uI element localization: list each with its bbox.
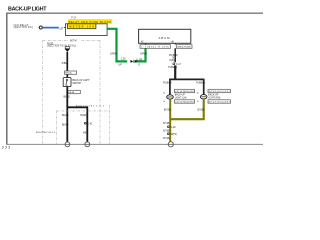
- svg-text:C-49: C-49: [171, 127, 177, 129]
- svg-text:SWITCH: SWITCH: [72, 83, 81, 85]
- svg-text:B(GR): B(GR): [62, 115, 69, 117]
- pin 42 tick: [145, 43, 147, 44]
- svg-text:B/Y(B): B/Y(B): [163, 131, 170, 133]
- ground wire olive RH: [170, 99, 204, 119]
- svg-text:M:B-4C: M:B-4C: [65, 73, 72, 75]
- inline connector C-61 right branch: [84, 122, 93, 125]
- branch wire LH: [169, 79, 171, 95]
- wire stub into fuse block: [64, 27, 66, 29]
- wire from fuse to switch: [66, 52, 68, 78]
- svg-text:BODY(CTR)-C-2.2: BODY(CTR)-C-2.2: [76, 105, 105, 107]
- svg-text:M703:E05(GR): M703:E05(GR): [209, 102, 230, 104]
- connector from IGN relay: [39, 26, 43, 29]
- back-up light LH bulb: [167, 95, 174, 99]
- fuse block box: [66, 24, 108, 36]
- frame top: [6, 12, 263, 14]
- svg-text:UP: UP: [119, 65, 123, 67]
- label BACK-UP LIGHT (RH): [208, 93, 220, 99]
- svg-text:BODY(M/T)-B-2.3: BODY(M/T)-B-2.3: [36, 132, 56, 134]
- svg-text:L/R: L/R: [59, 28, 63, 30]
- body ground right column: [168, 142, 173, 147]
- svg-text:C-61: C-61: [88, 124, 94, 126]
- wire switch to grounds: [66, 87, 68, 142]
- svg-text:B(GR): B(GR): [81, 115, 88, 117]
- back-up light switch: [63, 78, 71, 87]
- harness dash-dot box BODY(CTR): [56, 105, 109, 144]
- svg-text:M703:E05(GR): M703:E05(GR): [209, 91, 230, 93]
- wire G/R green power feed: [107, 29, 127, 62]
- svg-text:PU(B/W): PU(B/W): [168, 67, 177, 69]
- svg-text:BACK-UP: BACK-UP: [175, 93, 186, 96]
- svg-text:B/Y(B): B/Y(B): [163, 138, 170, 140]
- svg-text:M:B-4E: M:B-4E: [68, 92, 75, 94]
- svg-text:+B: +B: [171, 42, 174, 44]
- inline connector C-49: [167, 126, 176, 129]
- wire PU from pin +B: [174, 48, 176, 62]
- conn label box below switch: [67, 90, 81, 94]
- fuse F: [65, 47, 70, 52]
- svg-text:G/R(P): G/R(P): [140, 54, 147, 56]
- wire PU lower: [174, 65, 176, 79]
- svg-text:1:T(M64) H:(GR): 1:T(M64) H:(GR): [141, 47, 169, 49]
- svg-text:(M64):H(GR): (M64):H(GR): [177, 47, 191, 49]
- TCM box: [139, 29, 191, 43]
- svg-text:PU(B/W): PU(B/W): [196, 82, 205, 84]
- svg-text:G/R(P): G/R(P): [110, 54, 117, 56]
- IGN relay reference label: [14, 24, 33, 29]
- wire branch right: [67, 107, 87, 142]
- svg-text:M(P1): M(P1): [171, 134, 177, 136]
- svg-text:METER 10A: METER 10A: [69, 26, 94, 29]
- ground wire olive LH: [169, 99, 171, 142]
- svg-text:BACK-UP LIGHT: BACK-UP LIGHT: [72, 79, 90, 82]
- frame left: [6, 13, 8, 145]
- branch wire RH: [203, 79, 205, 95]
- label BACK-UP LIGHT SWITCH: [72, 79, 90, 85]
- svg-text:PU(B/W): PU(B/W): [163, 82, 172, 84]
- frame bottom: [6, 143, 263, 145]
- relay and fuse block highlight: [68, 19, 112, 24]
- svg-text:B/Y(B): B/Y(B): [164, 109, 171, 111]
- svg-text:PU(B/W): PU(B/W): [169, 55, 178, 57]
- conn label box LH A: [175, 89, 195, 93]
- svg-text:C6/10:M64(GR): C6/10:M64(GR): [175, 91, 194, 93]
- conn label box RH B: [208, 100, 230, 104]
- svg-text:LIGHT (LH): LIGHT (LH): [175, 98, 187, 100]
- svg-text:(SECTION PG IN RL/AL): (SECTION PG IN RL/AL): [47, 45, 76, 48]
- label BACK-UP LIGHT (LH): [175, 93, 187, 99]
- svg-text:M/T M: M/T M: [70, 41, 77, 43]
- wire G/R green to TCM: [135, 48, 145, 61]
- svg-text:ABCM: ABCM: [159, 36, 171, 40]
- inline connector C.20 on green wire: [130, 60, 137, 63]
- rail to bulbs: [170, 78, 204, 80]
- conn label box RH A: [208, 89, 230, 93]
- fuse label: [47, 43, 76, 47]
- svg-text:(SECTION PG): (SECTION PG): [14, 27, 33, 29]
- harness dash-dot box M/T: [43, 40, 100, 144]
- back-up light RH bulb: [200, 95, 207, 99]
- svg-text:C.20: C.20: [121, 59, 127, 61]
- conn label box LH B: [175, 100, 195, 104]
- svg-text:M(P): M(P): [83, 132, 88, 134]
- svg-text:C-17: C-17: [176, 64, 182, 66]
- svg-text:BACK-UP LIGHT: BACK-UP LIGHT: [8, 6, 47, 12]
- pin +B tick: [174, 43, 176, 44]
- svg-text:BACK-UP: BACK-UP: [208, 93, 219, 96]
- svg-text:LIGHT (RH): LIGHT (RH): [208, 98, 220, 100]
- inline connector C-17: [173, 63, 182, 66]
- svg-text:B/Y(B): B/Y(B): [198, 109, 205, 111]
- svg-text:P/BM: P/BM: [62, 63, 68, 65]
- connector label box pin 42: [140, 45, 171, 49]
- svg-text:B/Y(B): B/Y(B): [163, 123, 170, 125]
- svg-text:1L.OR: 1L.OR: [136, 59, 143, 61]
- fuse 10A highlight: [68, 24, 96, 29]
- joint M(P1): [167, 133, 177, 136]
- connector label box pin +B: [176, 45, 192, 49]
- wire L/R blue: [42, 27, 58, 29]
- svg-text:B(GR): B(GR): [62, 125, 69, 127]
- svg-text:C6/10:M64(GR): C6/10:M64(GR): [175, 102, 194, 104]
- body ground left: [65, 142, 70, 147]
- body ground middle: [85, 142, 90, 147]
- svg-text:777: 777: [2, 146, 10, 150]
- conn label box above switch: [65, 71, 77, 75]
- svg-text:R(P2): R(P2): [169, 60, 175, 62]
